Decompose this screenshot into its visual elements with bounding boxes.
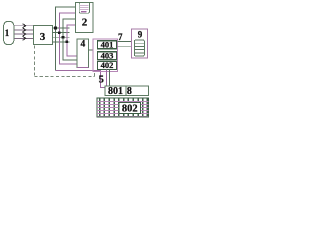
svg-text:802: 802 xyxy=(122,104,138,115)
svg-text:401: 401 xyxy=(101,39,114,49)
svg-text:5: 5 xyxy=(99,74,104,85)
svg-text:1: 1 xyxy=(5,28,10,38)
svg-text:4: 4 xyxy=(81,39,86,49)
svg-text:3: 3 xyxy=(40,31,46,43)
svg-text:9: 9 xyxy=(138,30,143,40)
svg-text:801: 801 xyxy=(108,86,123,97)
svg-text:7: 7 xyxy=(118,32,123,42)
svg-text:8: 8 xyxy=(127,86,132,97)
svg-text:403: 403 xyxy=(101,50,114,60)
svg-text:2: 2 xyxy=(82,17,88,29)
svg-text:402: 402 xyxy=(101,60,114,70)
